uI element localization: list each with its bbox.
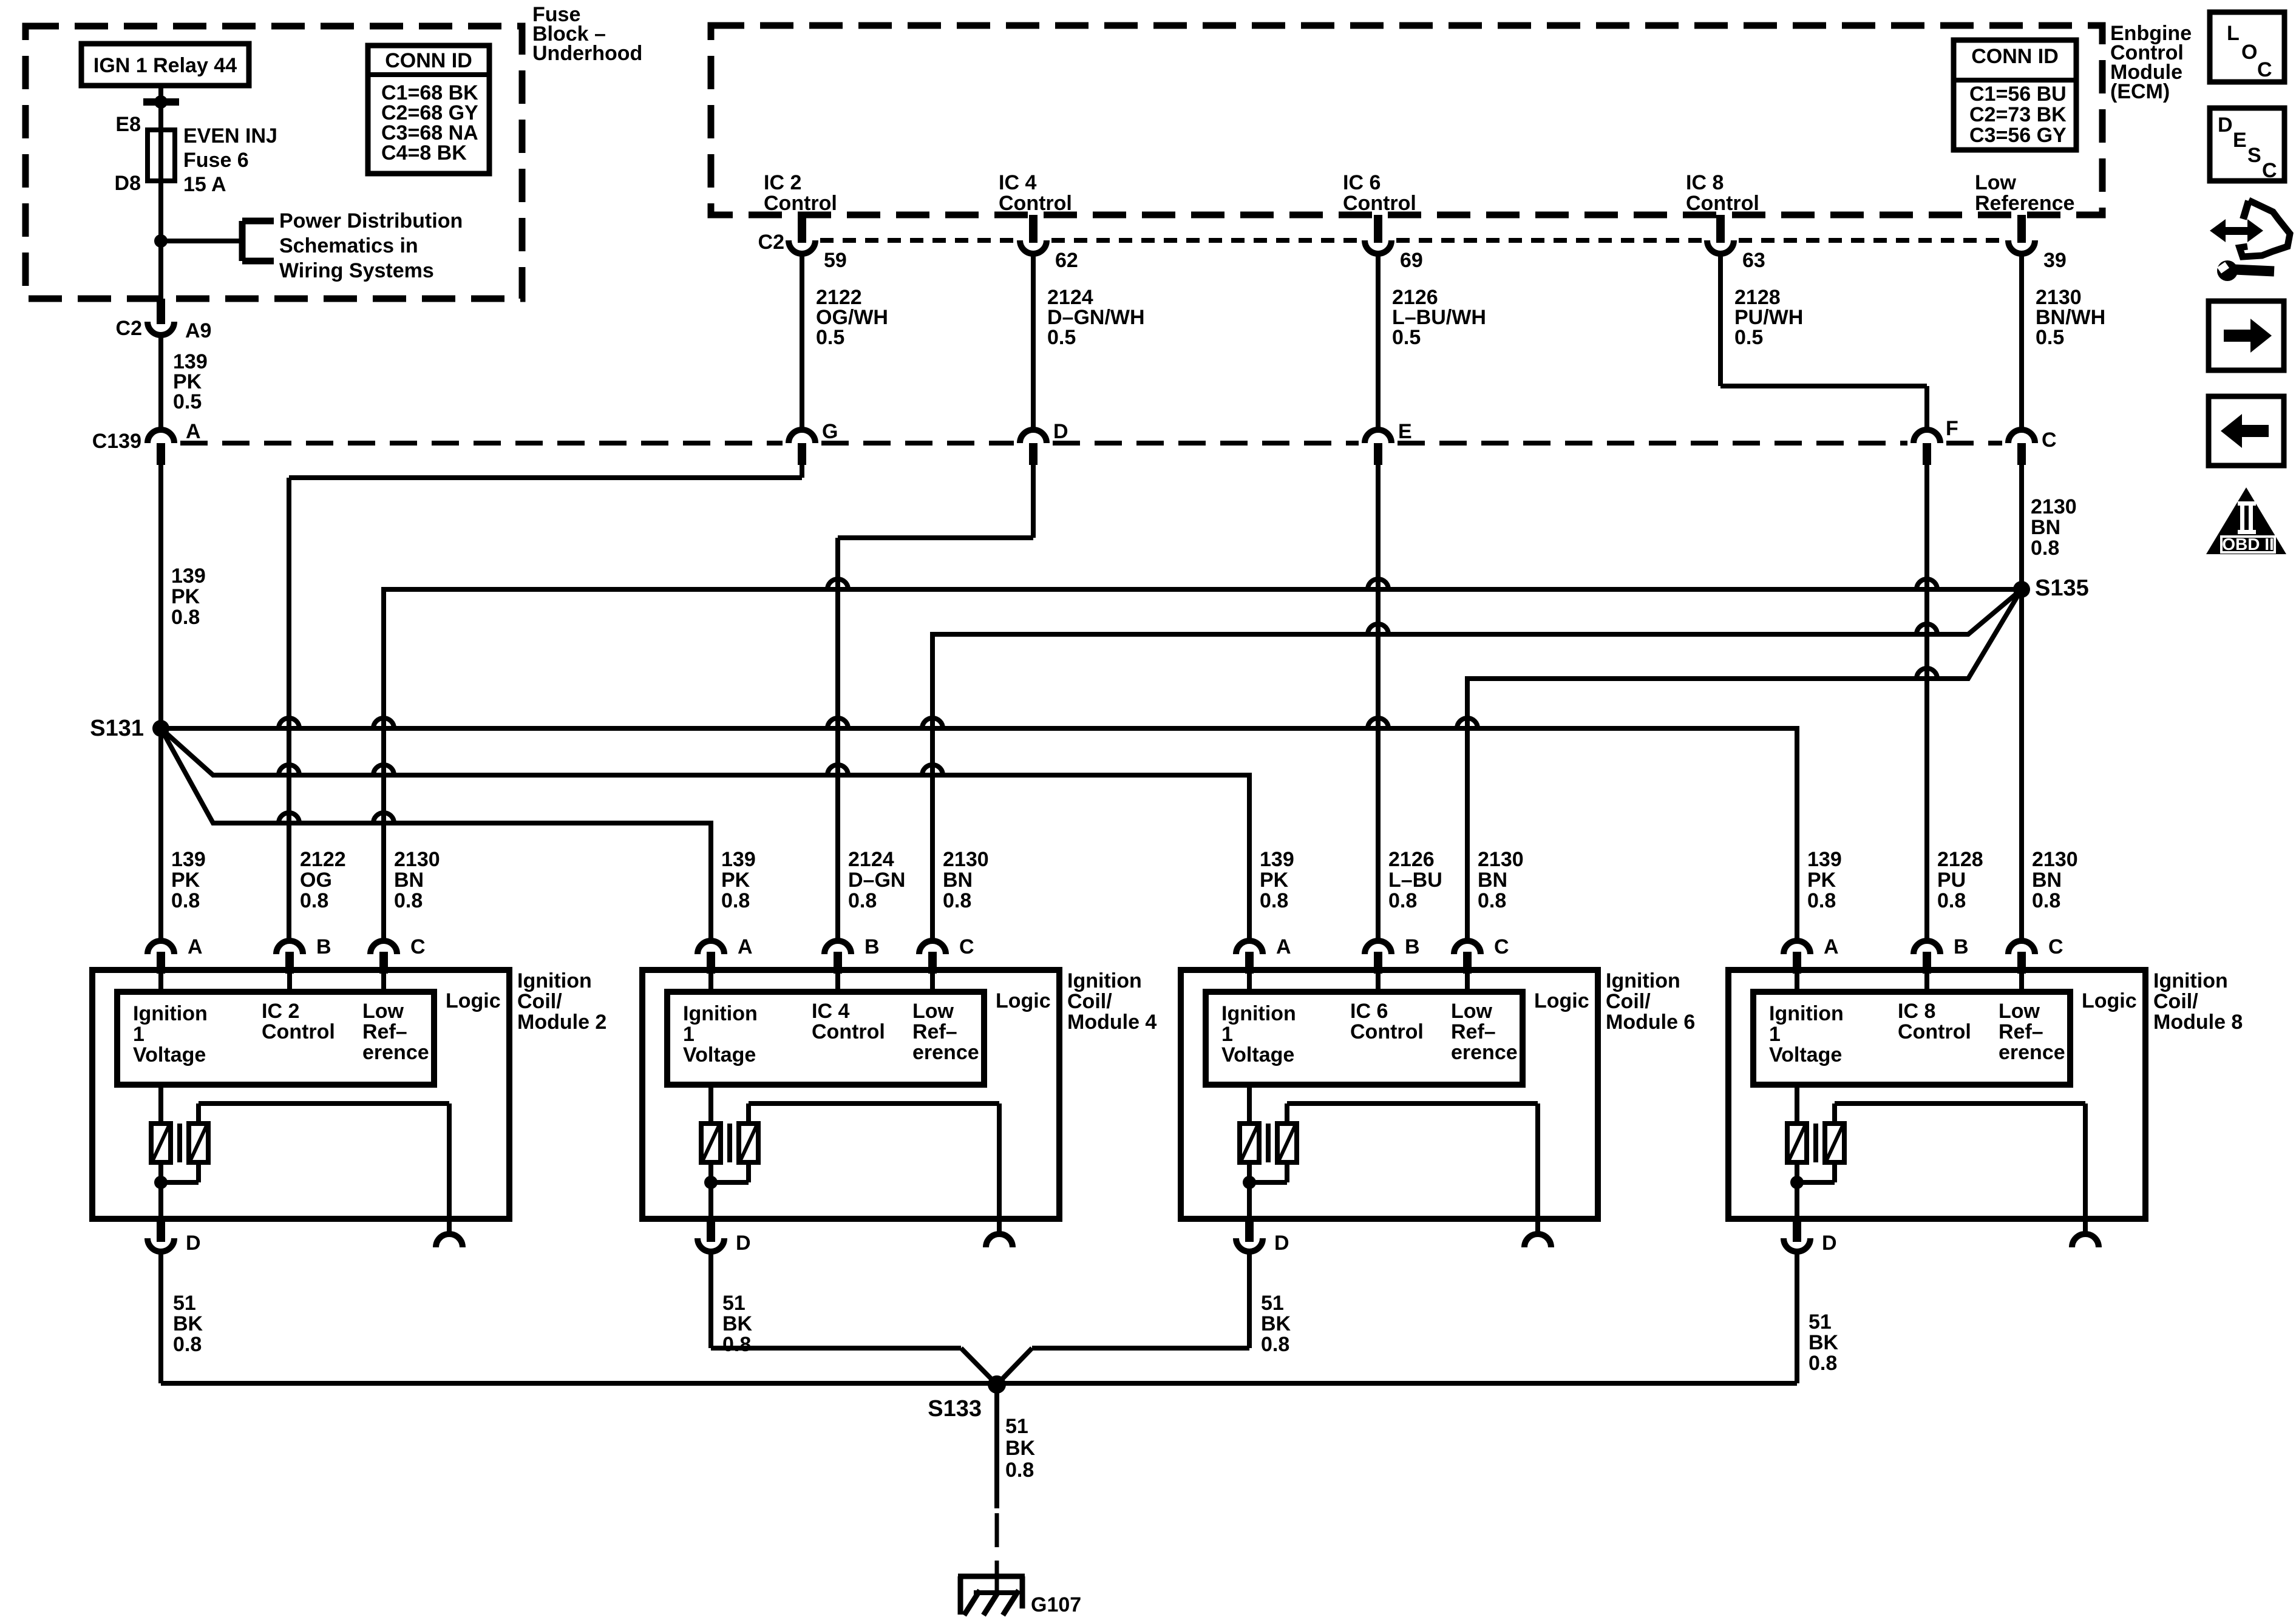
svg-text:D: D: [2218, 114, 2233, 137]
svg-text:Ignition: Ignition: [2153, 969, 2228, 992]
splice S131: [90, 716, 169, 741]
C139 pin G: [789, 420, 838, 465]
svg-text:2128: 2128: [1937, 848, 1983, 871]
ECM IC 4 Control label: [999, 171, 1072, 215]
ground bus module8 to S133: [997, 1381, 1797, 1386]
svg-text:0.8: 0.8: [1478, 889, 1506, 912]
module 6 core: [1266, 1124, 1271, 1162]
svg-text:E: E: [2233, 129, 2247, 152]
module 4 Logic label: [996, 989, 1051, 1012]
svg-text:C: C: [410, 935, 426, 958]
svg-text:0.8: 0.8: [722, 1333, 751, 1356]
svg-text:Coil/: Coil/: [517, 990, 562, 1013]
svg-text:Ignition: Ignition: [1221, 1002, 1296, 1025]
module 4 core: [727, 1124, 732, 1162]
svg-text:L: L: [2227, 22, 2240, 45]
svg-text:Module 8: Module 8: [2153, 1011, 2243, 1034]
svg-text:0.8: 0.8: [1005, 1459, 1034, 1482]
wire 2130 BN/WH 0.5: [2022, 251, 2105, 430]
svg-text:Logic: Logic: [2082, 989, 2137, 1012]
wire label 2124 D–GN at x=1397: [848, 848, 905, 912]
svg-text:Low: Low: [1451, 1000, 1493, 1023]
wire 51 BK 0.8 module4: [711, 1252, 753, 1356]
svg-text:A: A: [1276, 935, 1291, 958]
svg-text:C2: C2: [116, 317, 142, 340]
svg-text:G: G: [822, 420, 838, 443]
svg-text:D: D: [186, 1232, 201, 1255]
svg-text:E: E: [1398, 420, 1412, 443]
module 2 inner labels: [133, 1000, 429, 1066]
relay IGN 1 Relay 44 box: [81, 44, 249, 86]
svg-text:IC 4: IC 4: [812, 1000, 849, 1023]
C139 pin C: [2008, 429, 2057, 465]
svg-text:B: B: [864, 935, 880, 958]
svg-text:S133: S133: [928, 1396, 982, 1422]
svg-text:0.8: 0.8: [721, 889, 750, 912]
svg-text:0.8: 0.8: [394, 889, 423, 912]
svg-text:A: A: [738, 935, 753, 958]
svg-text:G107: G107: [1031, 1593, 1081, 1616]
svg-text:C: C: [2257, 58, 2272, 81]
svg-text:C: C: [2262, 159, 2277, 182]
module 8 primary winding: [1787, 1085, 1807, 1162]
svg-text:2130: 2130: [2032, 848, 2078, 871]
module 2 Logic label: [446, 989, 501, 1012]
module 8 inner labels: [1769, 1000, 2065, 1066]
C139 pin D: [1020, 420, 1068, 465]
svg-text:Logic: Logic: [996, 989, 1051, 1012]
module 6 pin C: [1454, 935, 1509, 992]
module 4 pin A: [698, 935, 753, 992]
svg-text:BK: BK: [1005, 1437, 1036, 1460]
ignition coil module 2 box: [92, 970, 509, 1219]
wire label 2130 BN at x=3347: [2032, 848, 2078, 912]
module 8 secondary winding: [1825, 1103, 2085, 1219]
svg-text:Ref–: Ref–: [362, 1020, 407, 1043]
svg-text:C4=8 BK: C4=8 BK: [381, 141, 467, 164]
svg-text:OG: OG: [300, 869, 332, 892]
connector C2 pin A9: [116, 299, 212, 342]
bus module4-C to S135: [932, 589, 2022, 941]
svg-text:C: C: [2048, 935, 2063, 958]
bus module2-C to S135: [384, 589, 2022, 941]
wire label 2122 OG at x=494: [300, 848, 346, 912]
module 2 secondary winding: [189, 1103, 449, 1219]
sidebar adjust icon: [2210, 200, 2290, 281]
fuse F6 EVEN INJ 15A: [148, 130, 175, 181]
svg-text:0.5: 0.5: [1047, 326, 1076, 349]
svg-text:139: 139: [171, 564, 206, 588]
sidebar next arrow icon: [2209, 301, 2284, 370]
svg-text:IC 2: IC 2: [262, 1000, 299, 1023]
svg-text:BN: BN: [943, 869, 973, 892]
svg-text:BN: BN: [1478, 869, 1507, 892]
wire 51 BK 0.8 to ground: [997, 1385, 1036, 1575]
svg-text:Coil/: Coil/: [1606, 990, 1651, 1013]
bus S131 to module8-A: [161, 728, 1797, 941]
svg-text:39: 39: [2043, 249, 2067, 272]
wire 2126 L-BU (E to module6 B): [1376, 465, 1381, 941]
svg-text:2130: 2130: [1478, 848, 1524, 871]
svg-text:0.8: 0.8: [300, 889, 328, 912]
power distribution note: [279, 209, 463, 282]
module 4 inner labels: [683, 1000, 979, 1066]
svg-text:A: A: [188, 935, 203, 958]
ECM pin 59: [789, 215, 847, 272]
C139 pin A: [148, 420, 201, 465]
svg-text:BK: BK: [722, 1312, 753, 1335]
module 2 primary winding: [151, 1085, 171, 1162]
ECM pin 69: [1365, 215, 1423, 272]
svg-text:A9: A9: [185, 319, 211, 342]
svg-text:0.5: 0.5: [2036, 326, 2064, 349]
junction to power distribution: [154, 234, 242, 248]
fuse block CONN ID table: [368, 46, 489, 174]
svg-text:Wiring Systems: Wiring Systems: [279, 259, 434, 282]
svg-text:IC 8: IC 8: [1686, 171, 1724, 194]
C139 pin E: [1365, 420, 1412, 465]
svg-text:Ignition: Ignition: [1067, 969, 1142, 992]
svg-text:Coil/: Coil/: [2153, 990, 2198, 1013]
svg-text:A: A: [1824, 935, 1839, 958]
svg-text:0.8: 0.8: [171, 889, 200, 912]
module 8 pin C: [2008, 935, 2063, 992]
svg-text:C: C: [959, 935, 974, 958]
svg-text:Ignition: Ignition: [517, 969, 592, 992]
svg-text:F: F: [1946, 417, 1958, 440]
fuse block label: [532, 3, 642, 65]
svg-text:Ref–: Ref–: [1451, 1020, 1496, 1043]
svg-text:O: O: [2241, 41, 2257, 64]
wire relay to fuse: [143, 86, 179, 130]
svg-text:Ref–: Ref–: [912, 1020, 957, 1043]
svg-text:Voltage: Voltage: [133, 1043, 206, 1066]
ground wire module6 to S133: [997, 1348, 1249, 1385]
connector C139 dashed line: [180, 441, 2002, 446]
svg-text:51: 51: [1261, 1292, 1284, 1315]
module 2 pin D: [148, 1219, 201, 1255]
module 2 pin B: [276, 935, 331, 992]
module 6 name label: [1606, 969, 1695, 1034]
module 4 primary winding: [701, 1085, 721, 1162]
svg-text:Fuse 6: Fuse 6: [183, 149, 249, 172]
svg-text:BN: BN: [394, 869, 424, 892]
module 6 secondary winding: [1277, 1103, 1538, 1219]
svg-text:51: 51: [1005, 1415, 1028, 1438]
wire label 139 PK at x=2075: [1260, 848, 1294, 912]
svg-text:B: B: [1954, 935, 1969, 958]
svg-text:erence: erence: [1999, 1041, 2065, 1064]
svg-text:B: B: [1405, 935, 1420, 958]
module 6 pin D: [1236, 1219, 1289, 1255]
svg-text:Control: Control: [1350, 1020, 1424, 1043]
ECM pin 63: [1707, 215, 1765, 272]
svg-text:Control: Control: [812, 1020, 885, 1043]
wire 2124 D-GN/WH 0.5: [1033, 251, 1145, 430]
sidebar back arrow icon: [2209, 396, 2284, 466]
svg-text:E8: E8: [115, 113, 141, 136]
svg-text:0.5: 0.5: [173, 390, 202, 413]
module 6 pin A: [1236, 935, 1291, 992]
svg-text:Logic: Logic: [1534, 989, 1589, 1012]
module 6 winding junction: [1243, 1162, 1287, 1219]
wire crossover bumps: [279, 579, 1937, 823]
wire fuse to connector C2: [158, 181, 163, 299]
svg-text:0.8: 0.8: [171, 606, 200, 629]
svg-text:51: 51: [173, 1292, 196, 1315]
svg-text:C: C: [1494, 935, 1509, 958]
svg-text:C2: C2: [758, 231, 784, 254]
ECM pin 62: [1020, 215, 1078, 272]
module 2 spark output pin: [436, 1219, 463, 1247]
svg-text:0.8: 0.8: [1388, 889, 1417, 912]
svg-text:2130: 2130: [2031, 495, 2077, 518]
svg-text:Power Distribution: Power Distribution: [279, 209, 463, 232]
svg-text:2124: 2124: [848, 848, 894, 871]
svg-text:IC 4: IC 4: [999, 171, 1036, 194]
ignition coil module 8 box: [1728, 970, 2145, 1219]
svg-text:0.5: 0.5: [1392, 326, 1421, 349]
module 6 primary winding: [1240, 1085, 1259, 1162]
svg-text:1: 1: [133, 1023, 144, 1046]
wire 2128 PU (F to module8 B): [1924, 465, 1929, 941]
module 2 pin C: [370, 935, 426, 992]
ECM label: [2110, 22, 2192, 103]
wire label 2126 L–BU at x=2287: [1388, 848, 1442, 912]
module 4 pin B: [824, 935, 880, 992]
svg-text:C2=73 BK: C2=73 BK: [1969, 103, 2067, 126]
wire label 2128 PU at x=3191: [1937, 848, 1983, 912]
power distribution bracket: [242, 221, 274, 261]
wire label 2130 BN at x=649: [394, 848, 440, 912]
module 8 spark output pin: [2072, 1219, 2099, 1247]
svg-text:erence: erence: [1451, 1041, 1518, 1064]
module 6 spark output pin: [1524, 1219, 1551, 1247]
ground bus module2 to S133: [161, 1381, 997, 1386]
svg-text:Ignition: Ignition: [133, 1002, 208, 1025]
svg-text:Control: Control: [1343, 192, 1416, 215]
fuse pin label E8: [115, 113, 141, 136]
wire label 139 PK at x=282: [171, 848, 206, 912]
svg-text:139: 139: [1807, 848, 1842, 871]
svg-text:PK: PK: [1807, 869, 1836, 892]
svg-text:0.8: 0.8: [1937, 889, 1966, 912]
svg-text:C3=56 GY: C3=56 GY: [1969, 124, 2067, 147]
svg-text:Module 4: Module 4: [1067, 1011, 1156, 1034]
ECM C2 label: [758, 231, 784, 254]
svg-text:Voltage: Voltage: [1221, 1043, 1294, 1066]
module 4 winding junction: [704, 1162, 749, 1219]
module 8 core: [1813, 1124, 1818, 1162]
svg-text:0.8: 0.8: [1261, 1333, 1289, 1356]
svg-text:2126: 2126: [1388, 848, 1435, 871]
svg-text:CONN ID: CONN ID: [385, 49, 472, 72]
svg-text:Ignition: Ignition: [683, 1002, 758, 1025]
wire 51 BK 0.8 module6: [1249, 1252, 1291, 1356]
junction at relay output: [154, 95, 168, 109]
module 2 name label: [517, 969, 606, 1034]
svg-text:Coil/: Coil/: [1067, 990, 1112, 1013]
svg-text:C1=56 BU: C1=56 BU: [1969, 83, 2067, 106]
wire 139 PK 0.8 (A to S131): [161, 465, 206, 941]
module 8 Logic label: [2082, 989, 2137, 1012]
svg-text:2122: 2122: [300, 848, 346, 871]
svg-text:Control: Control: [999, 192, 1072, 215]
fuse block - underhood dashed box: [25, 26, 522, 299]
wire 2126 L-BU/WH 0.5: [1378, 251, 1486, 430]
svg-text:Voltage: Voltage: [1769, 1043, 1842, 1066]
bus S131 to module6-A: [161, 728, 1249, 941]
svg-text:IC 6: IC 6: [1350, 1000, 1388, 1023]
svg-text:Control: Control: [1898, 1020, 1971, 1043]
svg-text:15 A: 15 A: [183, 173, 226, 196]
svg-text:erence: erence: [912, 1041, 979, 1064]
wire 2122 OG (G to module2 B): [289, 465, 802, 941]
svg-text:Low: Low: [1975, 171, 2017, 194]
ignition coil module 4 box: [642, 970, 1059, 1219]
svg-text:0.8: 0.8: [1260, 889, 1288, 912]
svg-text:BK: BK: [1261, 1312, 1291, 1335]
wire 2122 OG/WH 0.5: [802, 251, 888, 430]
svg-text:Reference: Reference: [1975, 192, 2074, 215]
wire 51 BK 0.8 module2: [161, 1252, 203, 1383]
ECM dashed box: [711, 25, 2102, 215]
svg-text:erence: erence: [362, 1041, 429, 1064]
splice S133: [928, 1375, 1006, 1422]
svg-text:D: D: [736, 1232, 751, 1255]
svg-text:63: 63: [1742, 249, 1765, 272]
svg-text:2130: 2130: [394, 848, 440, 871]
wire label 139 PK at x=2977: [1807, 848, 1842, 912]
svg-text:0.8: 0.8: [1807, 889, 1836, 912]
svg-text:Schematics in: Schematics in: [279, 234, 418, 257]
svg-text:BK: BK: [173, 1312, 203, 1335]
svg-text:D: D: [1274, 1232, 1289, 1255]
module 6 inner labels: [1221, 1000, 1518, 1066]
module 4 name label: [1067, 969, 1156, 1034]
svg-text:51: 51: [1809, 1310, 1832, 1334]
svg-text:Ref–: Ref–: [1999, 1020, 2043, 1043]
svg-text:1: 1: [683, 1023, 695, 1046]
svg-text:C: C: [2042, 429, 2057, 452]
svg-text:69: 69: [1400, 249, 1423, 272]
svg-text:Control: Control: [764, 192, 837, 215]
svg-text:PK: PK: [171, 869, 200, 892]
svg-text:IC 8: IC 8: [1898, 1000, 1935, 1023]
svg-text:OBD II: OBD II: [2222, 535, 2274, 554]
svg-text:0.5: 0.5: [1734, 326, 1763, 349]
module 8 name label: [2153, 969, 2243, 1034]
module 2 core: [177, 1124, 182, 1162]
C139 label: [92, 430, 141, 453]
svg-text:Module 6: Module 6: [1606, 1011, 1695, 1034]
svg-text:IC 6: IC 6: [1343, 171, 1381, 194]
svg-text:0.5: 0.5: [816, 326, 844, 349]
module 4 spark output pin: [986, 1219, 1013, 1247]
svg-text:59: 59: [824, 249, 847, 272]
ECM Low Reference label: [1975, 171, 2074, 215]
wire label 2130 BN at x=1553: [943, 848, 989, 912]
svg-text:D: D: [1053, 420, 1068, 443]
module 4 pin D: [698, 1219, 751, 1255]
splice S135: [2013, 575, 2089, 601]
sidebar OBD II icon: [2206, 487, 2286, 554]
wire 2124 D-GN (D to module4 B): [838, 465, 1033, 941]
svg-text:PU: PU: [1937, 869, 1966, 892]
svg-text:B: B: [316, 935, 331, 958]
svg-text:BN: BN: [2032, 869, 2062, 892]
svg-text:Ignition: Ignition: [1769, 1002, 1844, 1025]
svg-text:139: 139: [721, 848, 756, 871]
ECM pin 39: [2008, 215, 2067, 272]
ground wire module4 to S133: [711, 1348, 997, 1385]
svg-text:D: D: [1822, 1232, 1837, 1255]
module 8 pin A: [1784, 935, 1839, 992]
svg-text:139: 139: [1260, 848, 1294, 871]
wire label 2130 BN at x=2434: [1478, 848, 1524, 912]
wire 2130 BN (C to S135): [2022, 465, 2077, 941]
svg-text:PK: PK: [721, 869, 750, 892]
ECM connector C2 dotted line: [820, 238, 2003, 243]
fuse pin label D8: [115, 172, 141, 195]
svg-text:C139: C139: [92, 430, 141, 453]
svg-text:(ECM): (ECM): [2110, 80, 2170, 103]
svg-text:Voltage: Voltage: [683, 1043, 756, 1066]
svg-text:A: A: [186, 420, 201, 443]
module 2 winding junction: [154, 1162, 199, 1219]
module 8 pin D: [1784, 1219, 1837, 1255]
svg-text:S131: S131: [90, 716, 144, 741]
svg-text:EVEN INJ: EVEN INJ: [183, 124, 277, 147]
svg-text:0.8: 0.8: [173, 1333, 202, 1356]
svg-text:62: 62: [1055, 249, 1078, 272]
svg-text:Low: Low: [912, 1000, 954, 1023]
bus module6-C to S135: [1467, 589, 2022, 941]
svg-text:Ignition: Ignition: [1606, 969, 1680, 992]
svg-text:Control: Control: [1686, 192, 1759, 215]
svg-text:CONN ID: CONN ID: [1971, 45, 2059, 68]
wire label 139 PK at x=1188: [721, 848, 756, 912]
svg-text:Logic: Logic: [446, 989, 501, 1012]
svg-text:1: 1: [1769, 1023, 1781, 1046]
ECM CONN ID table: [1954, 40, 2076, 150]
svg-text:51: 51: [722, 1292, 746, 1315]
svg-text:0.8: 0.8: [943, 889, 971, 912]
svg-text:2130: 2130: [943, 848, 989, 871]
module 2 pin A: [148, 935, 203, 992]
sidebar DESC icon: [2210, 108, 2284, 182]
svg-text:Low: Low: [362, 1000, 404, 1023]
sidebar LOC icon: [2210, 12, 2284, 82]
ECM IC 6 Control label: [1343, 171, 1416, 215]
svg-text:0.8: 0.8: [848, 889, 877, 912]
module 4 secondary winding: [739, 1103, 999, 1219]
svg-text:D–GN: D–GN: [848, 869, 905, 892]
svg-text:IC 2: IC 2: [764, 171, 801, 194]
svg-text:Control: Control: [262, 1020, 335, 1043]
module 4 pin C: [919, 935, 974, 992]
svg-text:139: 139: [171, 848, 206, 871]
fuse value label: [183, 124, 277, 196]
wire 2128 PU/WH 0.5: [1720, 251, 1927, 430]
svg-text:Low: Low: [1999, 1000, 2040, 1023]
svg-text:BK: BK: [1809, 1331, 1839, 1354]
svg-text:Module 2: Module 2: [517, 1011, 606, 1034]
wire 51 BK 0.8 module8: [1797, 1252, 1839, 1383]
svg-text:PK: PK: [1260, 869, 1289, 892]
ignition coil module 6 box: [1181, 970, 1598, 1219]
svg-text:0.8: 0.8: [1809, 1352, 1837, 1375]
